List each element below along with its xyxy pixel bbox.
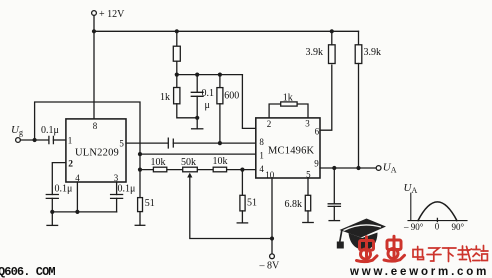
watermark bug char 1 [357,237,378,262]
svg-text:10k: 10k [151,157,166,168]
svg-text:50k: 50k [181,157,196,168]
capacitor output [333,168,335,204]
watermark text zi [427,248,441,261]
svg-text:1k: 1k [283,92,293,103]
node bias-600 [218,73,222,77]
op-amp U2 MC1496K [256,118,320,178]
ground output cap [329,220,339,222]
resistor 1k bias [176,75,178,88]
svg-text:2: 2 [68,160,73,170]
ground 51 right [237,222,247,224]
svg-text:0.1μ: 0.1μ [118,183,136,194]
node pin2 cap bottom [50,210,54,214]
resistor 10k left [153,167,166,172]
svg-text:MC1496K: MC1496K [268,145,315,156]
svg-text:10k: 10k [213,156,228,167]
node pin1 row [138,152,142,156]
wire ULN pin 5 to coupling cap [126,142,168,144]
watermark text zhan [473,246,488,261]
svg-text:1: 1 [259,150,264,160]
resistor 51 right [241,170,243,196]
node -8V junction [270,236,274,240]
watermark [337,219,386,250]
wire bias row to MC1496K top-left [242,75,255,129]
wire ULN pin 2 [52,163,66,195]
wiper arrow of 50k [190,177,272,239]
ground 6.8k [303,222,313,224]
resistor 51 left [139,170,141,198]
input terminal Ug [16,138,21,143]
wire +12V to ULN2209 pin 8 [93,16,95,119]
svg-text:90°: 90° [452,222,465,232]
capacitor 0.1u input [49,136,54,143]
svg-text:51: 51 [145,198,155,209]
wire ULN pin 4 [76,182,78,212]
svg-text:3: 3 [305,118,310,128]
svg-text:1k: 1k [160,92,170,103]
node pin4 [75,210,79,214]
svg-text:8: 8 [259,137,264,147]
svg-text:51: 51 [247,197,257,208]
svg-text:+ 12V: + 12V [99,9,125,20]
wire MC1496K pin 1 row [140,153,256,155]
node bias-cap [195,73,199,77]
wire pin 10 to -8V terminal [271,178,273,254]
node output cap [332,166,336,170]
resistor 6.8k [307,178,309,195]
capacitor 0.1u pin2 [46,195,58,199]
capacitor coupling [168,138,173,148]
resistor bias top [176,31,178,46]
svg-text:600: 600 [224,91,239,102]
-8V terminal [270,254,275,259]
resistor 3.9k left [329,45,336,64]
svg-text:ULN2209: ULN2209 [75,148,119,159]
node 10k row left [138,168,142,172]
capacitor 0.1u bias [196,75,198,93]
graph curve [418,202,457,221]
svg-text:1: 1 [68,136,73,146]
node bias-1k [175,73,179,77]
svg-text:9: 9 [314,158,319,168]
potentiometer 50k [183,167,198,172]
cap board [340,219,387,238]
watermark text xia [443,248,457,262]
+12V supply terminal [92,11,97,16]
wire ULN bottom row [52,211,116,213]
wire ULN pin 3 [116,182,118,195]
svg-text:0.1: 0.1 [202,88,215,99]
resistor 600 [219,75,221,88]
ground ULN [47,224,58,226]
output terminal UA [376,166,381,171]
svg-text:0.1μ: 0.1μ [41,125,59,136]
svg-text:6: 6 [315,126,320,136]
svg-text:2: 2 [267,119,272,129]
node rail-left [92,29,96,33]
ground 51 left [135,224,145,226]
wire cap to pin 1 [53,139,66,141]
svg-text:5: 5 [119,138,124,148]
cap base [349,233,378,250]
wire pin 6 to 3.9k [320,65,332,130]
resistor 3.9k right [358,31,360,45]
svg-text:μ: μ [205,100,210,111]
svg-text:3.9k: 3.9k [306,47,324,58]
tassel [340,231,342,242]
svg-text:4: 4 [75,173,80,183]
svg-text:3: 3 [114,173,119,183]
node 3.9k output [356,166,360,170]
graph tick 0 [436,218,438,221]
node 600 to pin8 wire [218,141,222,145]
wire pin 9 output row [320,167,376,169]
svg-text:10: 10 [265,170,275,180]
svg-text:– 8V: – 8V [259,261,281,272]
resistor 10k right [213,167,226,172]
wire Ug to input cap [20,139,48,141]
ground bias [192,128,203,130]
wire coupling cap to MC1496K pin 8 [173,142,256,144]
node rail-R3.9k [330,29,334,33]
wire Ug loop over to MC1496K pin 1 net [35,102,140,170]
svg-text:www.eeworm.com: www.eeworm.com [349,266,489,278]
node 1k-ground [195,116,199,120]
svg-text:4: 4 [259,164,264,174]
node Ug [33,138,37,142]
watermark text dian [413,247,424,260]
svg-text:– 90°: – 90° [403,222,424,232]
wire 10k row [140,169,256,171]
node rail-bias [175,29,179,33]
svg-text:0: 0 [435,221,440,231]
watermark text zai [458,246,472,262]
svg-text:Q606. COM: Q606. COM [0,265,55,278]
svg-text:0.1μ: 0.1μ [55,184,73,195]
graph inset axes [408,193,467,220]
svg-text:6.8k: 6.8k [285,199,303,210]
svg-text:8: 8 [93,121,98,131]
svg-text:3.9k: 3.9k [364,47,382,58]
wire bias row [177,74,243,76]
node 10k row right [240,168,244,172]
resistor 1k feedback pins 2-3 [269,104,308,118]
op-amp U1 ULN2209 [66,119,126,182]
wire +12V rail [94,30,359,32]
capacitor 0.1u pin3 [111,195,123,199]
watermark bug char 2 [384,236,405,261]
